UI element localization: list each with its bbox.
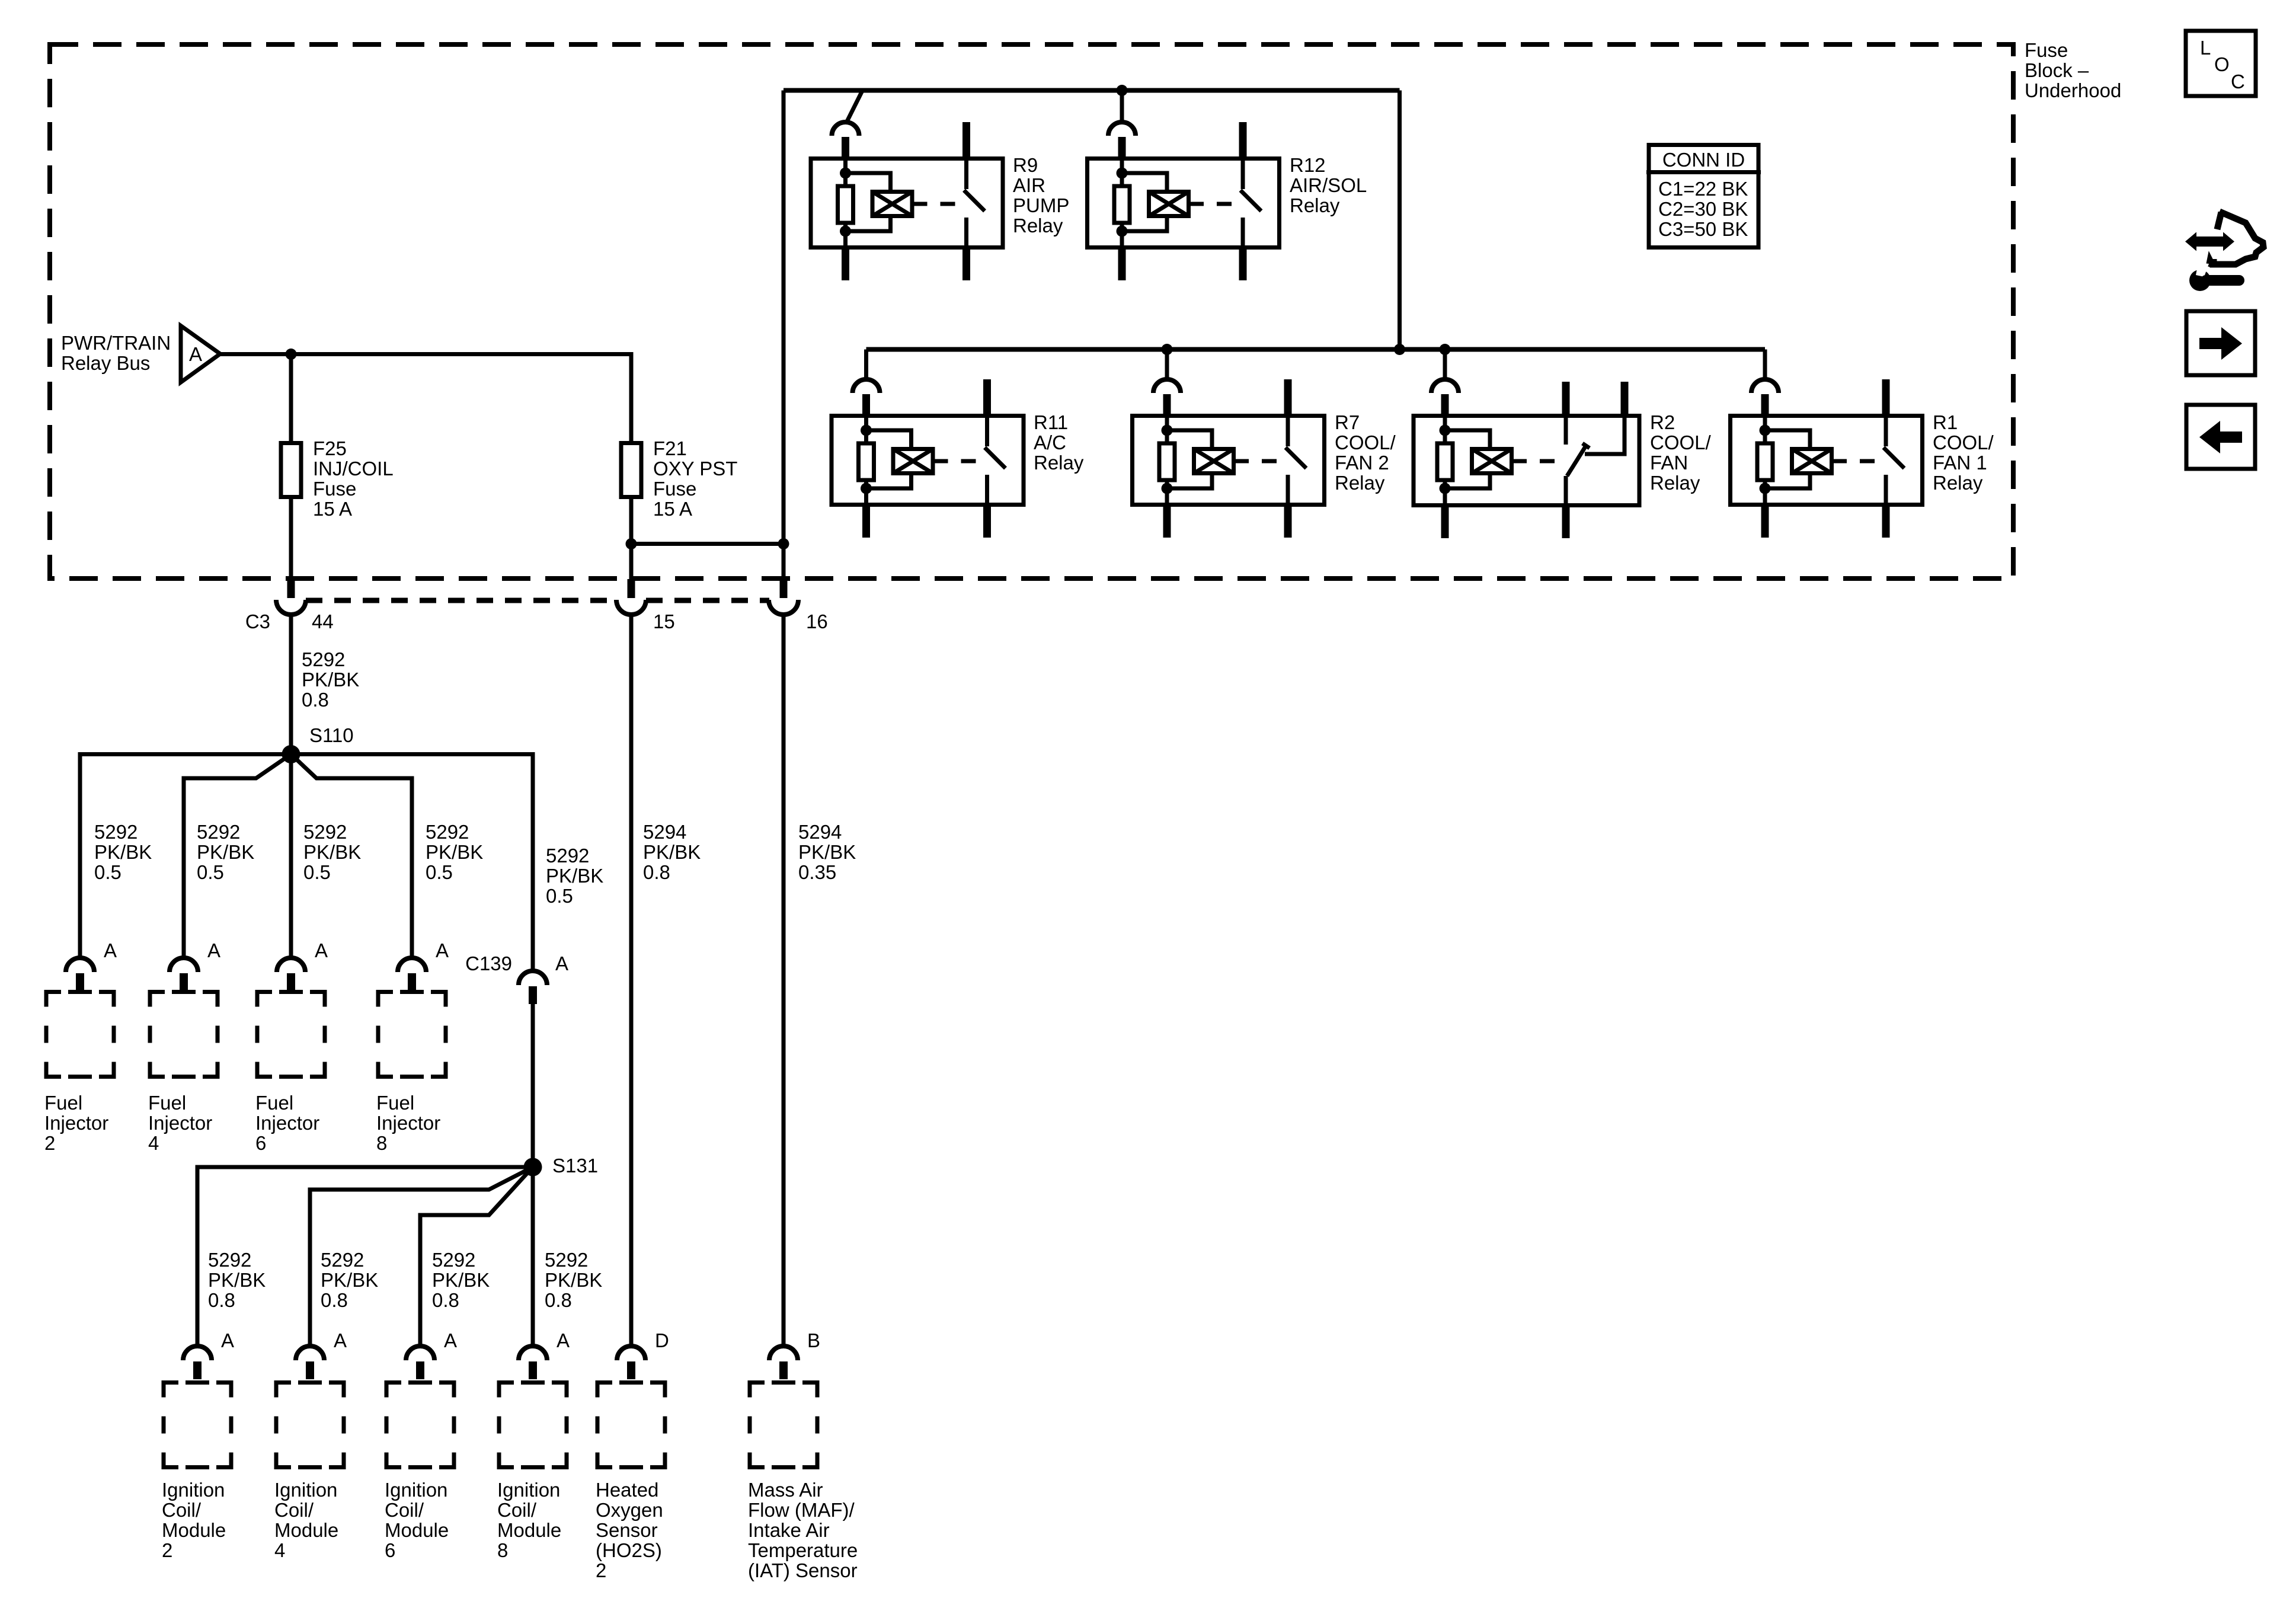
wire label 5292 PK/BK 0.5 (C139 branch) [546, 845, 603, 907]
svg-text:Coil/: Coil/ [274, 1499, 314, 1521]
fuel injector 8 label [376, 1092, 440, 1154]
ignition coil/module 2 pin A connector [183, 1329, 234, 1379]
svg-text:0.8: 0.8 [208, 1289, 235, 1311]
svg-text:Relay Bus: Relay Bus [61, 352, 150, 374]
svg-text:5292: 5292 [546, 845, 589, 867]
svg-text:Temperature: Temperature [748, 1539, 858, 1561]
svg-text:Ignition: Ignition [497, 1479, 560, 1501]
F21 label [653, 437, 737, 520]
svg-text:R12: R12 [1290, 154, 1326, 176]
wire label 5292 PK/BK 0.5 at x=159 [94, 821, 152, 883]
second relay feed bus [866, 347, 1766, 352]
svg-text:F21: F21 [653, 437, 687, 459]
ignition coil/module 6 pin A connector [406, 1329, 457, 1379]
wire: C139 to S131 [531, 1004, 535, 1167]
svg-text:5292: 5292 [208, 1249, 251, 1271]
svg-text:15 A: 15 A [653, 498, 692, 520]
svg-text:5292: 5292 [432, 1249, 475, 1271]
ignition coil/module 8 pin A connector [519, 1329, 570, 1379]
pin 15 connector [616, 579, 646, 615]
svg-text:Relay: Relay [1013, 215, 1063, 236]
wire: S131 branch to ignition coil 6 [420, 1167, 533, 1347]
svg-text:Relay: Relay [1933, 472, 1983, 494]
svg-text:Heated: Heated [596, 1479, 658, 1501]
svg-text:(HO2S): (HO2S) [596, 1539, 662, 1561]
svg-text:0.8: 0.8 [302, 689, 329, 711]
heated oxygen sensor HO2S 2 box [597, 1383, 665, 1468]
svg-text:COOL/: COOL/ [1650, 431, 1712, 453]
svg-text:Relay: Relay [1335, 472, 1385, 494]
svg-text:5292: 5292 [303, 821, 347, 843]
svg-text:Module: Module [274, 1519, 338, 1541]
svg-text:0.8: 0.8 [432, 1289, 459, 1311]
svg-text:CONN ID: CONN ID [1662, 149, 1745, 171]
svg-text:Relay: Relay [1290, 194, 1340, 216]
junction bus corner [1394, 344, 1405, 355]
ignition coil/module 6 box [386, 1383, 454, 1468]
service/diagnostic icon (double arrow, engine outline, wrench) [2185, 212, 2263, 291]
ignition coil/module 4 box [276, 1383, 344, 1468]
svg-text:PK/BK: PK/BK [432, 1269, 490, 1291]
svg-text:D: D [655, 1329, 669, 1351]
wire 5292 PK/BK 0.8 from pin 44 to S110 [289, 615, 293, 755]
svg-text:4: 4 [274, 1539, 285, 1561]
svg-text:Coil/: Coil/ [385, 1499, 424, 1521]
connector C139 pin A [465, 952, 568, 1004]
svg-text:0.5: 0.5 [303, 861, 331, 883]
svg-text:16: 16 [806, 610, 828, 632]
svg-text:Fuel: Fuel [255, 1092, 293, 1114]
junction for R7 drop [1162, 344, 1173, 355]
svg-text:A: A [104, 939, 117, 961]
ignition coil/module 6 label [385, 1479, 449, 1561]
svg-text:5294: 5294 [643, 821, 686, 843]
svg-text:4: 4 [148, 1132, 159, 1154]
svg-text:PK/BK: PK/BK [197, 841, 254, 863]
svg-text:Underhood: Underhood [2025, 79, 2121, 101]
svg-text:INJ/COIL: INJ/COIL [313, 458, 394, 480]
svg-text:A: A [444, 1329, 457, 1351]
svg-text:Fuse: Fuse [653, 478, 696, 500]
fuel injector 2 label [44, 1092, 108, 1154]
svg-text:5292: 5292 [321, 1249, 364, 1271]
svg-text:PWR/TRAIN: PWR/TRAIN [61, 332, 171, 354]
wire: F25 to pin 44 [289, 499, 293, 579]
fuel injector 8 box [378, 992, 446, 1077]
svg-text:O: O [2214, 53, 2230, 75]
svg-text:44: 44 [312, 610, 334, 632]
svg-text:8: 8 [376, 1132, 387, 1154]
wire: drop to R1 coil [1763, 350, 1767, 381]
ignition coil/module 8 box [499, 1383, 567, 1468]
relay R12 AIR/SOL [1088, 122, 1367, 280]
fuel injector 2 box [46, 992, 114, 1077]
svg-text:Mass Air: Mass Air [748, 1479, 823, 1501]
svg-text:S110: S110 [309, 724, 354, 746]
wire: drop to R11 coil [864, 350, 868, 381]
fuel injector 6 label [255, 1092, 319, 1154]
svg-text:OXY PST: OXY PST [653, 458, 737, 480]
svg-text:Injector: Injector [148, 1112, 212, 1134]
svg-text:15: 15 [653, 610, 675, 632]
svg-text:Ignition: Ignition [385, 1479, 447, 1501]
svg-text:PK/BK: PK/BK [94, 841, 152, 863]
wire: drop to R7 coil [1165, 350, 1169, 381]
wire label 5294 PK/BK 0.35 [798, 821, 856, 883]
back arrow box [2186, 405, 2255, 469]
svg-text:R7: R7 [1335, 411, 1360, 433]
wire: PWR/TRAIN bus to F25/F21 [220, 354, 632, 442]
wire: S131 left branch to ignition coil 2 [197, 1167, 533, 1347]
svg-text:0.5: 0.5 [197, 861, 224, 883]
fuse F21 OXY PST 15A [621, 443, 641, 497]
svg-text:R11: R11 [1034, 411, 1068, 433]
svg-text:C3: C3 [245, 610, 270, 632]
svg-text:15 A: 15 A [313, 498, 352, 520]
svg-text:Relay: Relay [1650, 472, 1700, 494]
svg-text:5292: 5292 [197, 821, 240, 843]
pin 16 label [806, 610, 828, 632]
relay R7 COOL/FAN 2 [1133, 379, 1396, 538]
svg-text:PK/BK: PK/BK [546, 865, 603, 887]
svg-text:A: A [207, 939, 220, 961]
relay R11 A/C [832, 379, 1084, 538]
svg-text:0.35: 0.35 [798, 861, 836, 883]
wire label 5292 PK/BK 0.8 at x=351 [208, 1249, 266, 1311]
fuel injector 4 box [150, 992, 218, 1077]
svg-text:FAN 2: FAN 2 [1335, 452, 1389, 474]
svg-text:5292: 5292 [302, 648, 345, 670]
fuse F25 INJ/COIL 15A [281, 443, 301, 497]
svg-text:PK/BK: PK/BK [545, 1269, 602, 1291]
svg-text:8: 8 [497, 1539, 508, 1561]
fuel injector 4 label [148, 1092, 212, 1154]
wire: S131 straight down to ignition coil 8 [531, 1167, 535, 1347]
wire: top bus down to second bus [1398, 91, 1402, 350]
ignition coil/module 2 box [164, 1383, 231, 1468]
pin 44 label [312, 610, 334, 632]
node A: PWR/TRAIN Relay Bus triangle [181, 326, 220, 383]
junction below F21 [626, 538, 637, 549]
svg-text:C1=22 BK: C1=22 BK [1658, 178, 1748, 200]
svg-text:Fuel: Fuel [44, 1092, 82, 1114]
svg-text:6: 6 [385, 1539, 395, 1561]
svg-text:C2=30 BK: C2=30 BK [1658, 198, 1748, 220]
svg-text:Sensor: Sensor [596, 1519, 658, 1541]
svg-text:PK/BK: PK/BK [302, 669, 359, 691]
wire label 5292 PK/BK 0.8 at x=541 [321, 1249, 378, 1311]
ignition coil/module 8 label [497, 1479, 561, 1561]
junction at F25 branch [286, 349, 297, 360]
junction on pin16 riser [778, 538, 789, 549]
wire label 5294 PK/BK 0.8 [643, 821, 701, 883]
splice S110 [282, 724, 354, 763]
svg-text:F25: F25 [313, 437, 347, 459]
svg-text:0.5: 0.5 [94, 861, 121, 883]
svg-text:Fuel: Fuel [376, 1092, 414, 1114]
fuse block label [2025, 39, 2121, 101]
wire: S110 right branch to C139 [291, 755, 533, 971]
wire: S131 branch to ignition coil 4 [310, 1167, 533, 1347]
MAF/IAT sensor box [750, 1383, 817, 1468]
svg-text:5292: 5292 [94, 821, 137, 843]
svg-text:A: A [436, 939, 449, 961]
wire: S110 diagonal branch to injector 8 [291, 755, 412, 958]
svg-text:A: A [334, 1329, 347, 1351]
wire: riser from top bus to pin 16 [782, 91, 786, 580]
F25 label [313, 437, 394, 520]
svg-text:Relay: Relay [1034, 452, 1084, 474]
svg-text:AIR: AIR [1013, 174, 1045, 196]
svg-text:PK/BK: PK/BK [208, 1269, 266, 1291]
wire: drop to R2 coil [1443, 350, 1447, 381]
svg-text:COOL/: COOL/ [1335, 431, 1396, 453]
pin 16 connector [769, 579, 798, 615]
svg-text:2: 2 [44, 1132, 55, 1154]
svg-text:Module: Module [385, 1519, 449, 1541]
wire label 5292 PK/BK 0.5 at x=332 [197, 821, 254, 883]
PWR/TRAIN Relay Bus label [61, 332, 171, 374]
svg-text:5292: 5292 [545, 1249, 588, 1271]
MAF/IAT sensor label [748, 1479, 858, 1581]
junction for R2 drop [1440, 344, 1451, 355]
svg-text:(IAT) Sensor: (IAT) Sensor [748, 1559, 858, 1581]
fuel injector 6 box [257, 992, 325, 1077]
svg-text:Ignition: Ignition [162, 1479, 225, 1501]
LOC reference box [2186, 31, 2256, 96]
svg-text:0.5: 0.5 [546, 885, 573, 907]
svg-text:FAN: FAN [1650, 452, 1688, 474]
wire: S110 left branch to injector 2 [80, 755, 291, 958]
svg-text:PK/BK: PK/BK [798, 841, 856, 863]
splice S131 [524, 1155, 599, 1177]
svg-text:Intake Air: Intake Air [748, 1519, 830, 1541]
wire: drop to R12 coil [1120, 91, 1124, 123]
svg-text:A: A [557, 1329, 570, 1351]
svg-text:PK/BK: PK/BK [303, 841, 361, 863]
pin 44 connector [276, 579, 306, 615]
svg-text:0.8: 0.8 [643, 861, 670, 883]
svg-text:Injector: Injector [376, 1112, 440, 1134]
svg-text:S131: S131 [552, 1155, 598, 1177]
svg-text:5294: 5294 [798, 821, 842, 843]
wire: F21 output to pin16 riser [631, 542, 784, 546]
svg-text:C3=50 BK: C3=50 BK [1658, 218, 1748, 240]
svg-text:Block –: Block – [2025, 59, 2089, 81]
svg-text:0.8: 0.8 [321, 1289, 348, 1311]
wire label 5292 PK/BK 0.8 [302, 648, 359, 711]
svg-text:A: A [189, 343, 202, 365]
relay R2 COOL/FAN (changeover) [1414, 379, 1712, 538]
svg-text:Injector: Injector [44, 1112, 108, 1134]
svg-text:Fuel: Fuel [148, 1092, 186, 1114]
svg-text:L: L [2200, 37, 2211, 59]
wire: diagonal feed to R9 coil [847, 89, 863, 122]
svg-text:Fuse: Fuse [2025, 39, 2068, 61]
ignition coil/module 2 label [162, 1479, 226, 1561]
connector C3 dashed line [306, 598, 769, 603]
svg-text:PUMP: PUMP [1013, 194, 1069, 216]
CONN ID table [1646, 145, 1761, 248]
svg-text:Coil/: Coil/ [497, 1499, 537, 1521]
MAF/IAT sensor pin B connector [769, 1329, 820, 1379]
svg-text:R2: R2 [1650, 411, 1675, 433]
wire: pin 16 to MAF/IAT [782, 615, 786, 1347]
wire: S110 diagonal branch to injector 4 [184, 755, 291, 958]
svg-text:B: B [807, 1329, 820, 1351]
relay R9 AIR PUMP [811, 122, 1069, 280]
svg-text:5292: 5292 [426, 821, 469, 843]
svg-text:R9: R9 [1013, 154, 1038, 176]
svg-text:C: C [2231, 71, 2245, 92]
svg-text:0.8: 0.8 [545, 1289, 572, 1311]
svg-text:PK/BK: PK/BK [321, 1269, 378, 1291]
fuel injector 4 pin A connector [170, 939, 220, 990]
svg-text:Module: Module [162, 1519, 226, 1541]
wire label 5292 PK/BK 0.5 at x=512 [303, 821, 361, 883]
fuel injector 2 pin A connector [66, 939, 117, 990]
svg-text:Fuse: Fuse [313, 478, 356, 500]
svg-text:Oxygen: Oxygen [596, 1499, 663, 1521]
svg-text:FAN 1: FAN 1 [1933, 452, 1987, 474]
forward arrow box [2186, 311, 2255, 375]
wire label 5292 PK/BK 0.5 at x=718 [426, 821, 483, 883]
fuel injector 8 pin A connector [398, 939, 449, 990]
svg-text:R1: R1 [1933, 411, 1958, 433]
svg-text:Injector: Injector [255, 1112, 319, 1134]
ignition coil/module 4 pin A connector [296, 1329, 347, 1379]
svg-text:A: A [315, 939, 328, 961]
svg-text:AIR/SOL: AIR/SOL [1290, 174, 1367, 196]
svg-text:A: A [221, 1329, 234, 1351]
svg-text:C139: C139 [465, 952, 512, 974]
svg-text:Flow (MAF)/: Flow (MAF)/ [748, 1499, 855, 1521]
svg-text:COOL/: COOL/ [1933, 431, 1994, 453]
svg-text:A: A [555, 952, 568, 974]
svg-text:PK/BK: PK/BK [426, 841, 483, 863]
svg-text:0.5: 0.5 [426, 861, 453, 883]
heated oxygen sensor HO2S 2 label [596, 1479, 663, 1581]
wire: F21 to pin 15 [629, 499, 634, 579]
svg-text:Ignition: Ignition [274, 1479, 337, 1501]
wire label 5292 PK/BK 0.8 at x=919 [545, 1249, 602, 1311]
pin 15 label [653, 610, 675, 632]
wire label 5292 PK/BK 0.8 at x=729 [432, 1249, 490, 1311]
label C3 [245, 610, 270, 632]
svg-text:PK/BK: PK/BK [643, 841, 701, 863]
relay R1 COOL/FAN 1 [1731, 379, 1994, 538]
svg-text:6: 6 [255, 1132, 266, 1154]
ignition coil/module 4 label [274, 1479, 338, 1561]
wire: pin 15 to HO2S [629, 615, 634, 1347]
junction for R12 drop [1117, 85, 1128, 96]
fuel injector 6 pin A connector [277, 939, 328, 990]
svg-text:Coil/: Coil/ [162, 1499, 202, 1521]
fuse block underhood dashed border [50, 44, 2013, 578]
heated oxygen sensor HO2S 2 pin D connector [617, 1329, 669, 1379]
wire: branch down to F25 [289, 354, 293, 442]
wire: S110 straight down to injector 6 [289, 755, 293, 958]
svg-text:Module: Module [497, 1519, 561, 1541]
svg-text:A/C: A/C [1034, 431, 1066, 453]
top relay feed bus [784, 88, 1400, 93]
svg-text:2: 2 [162, 1539, 172, 1561]
svg-text:2: 2 [596, 1559, 606, 1581]
